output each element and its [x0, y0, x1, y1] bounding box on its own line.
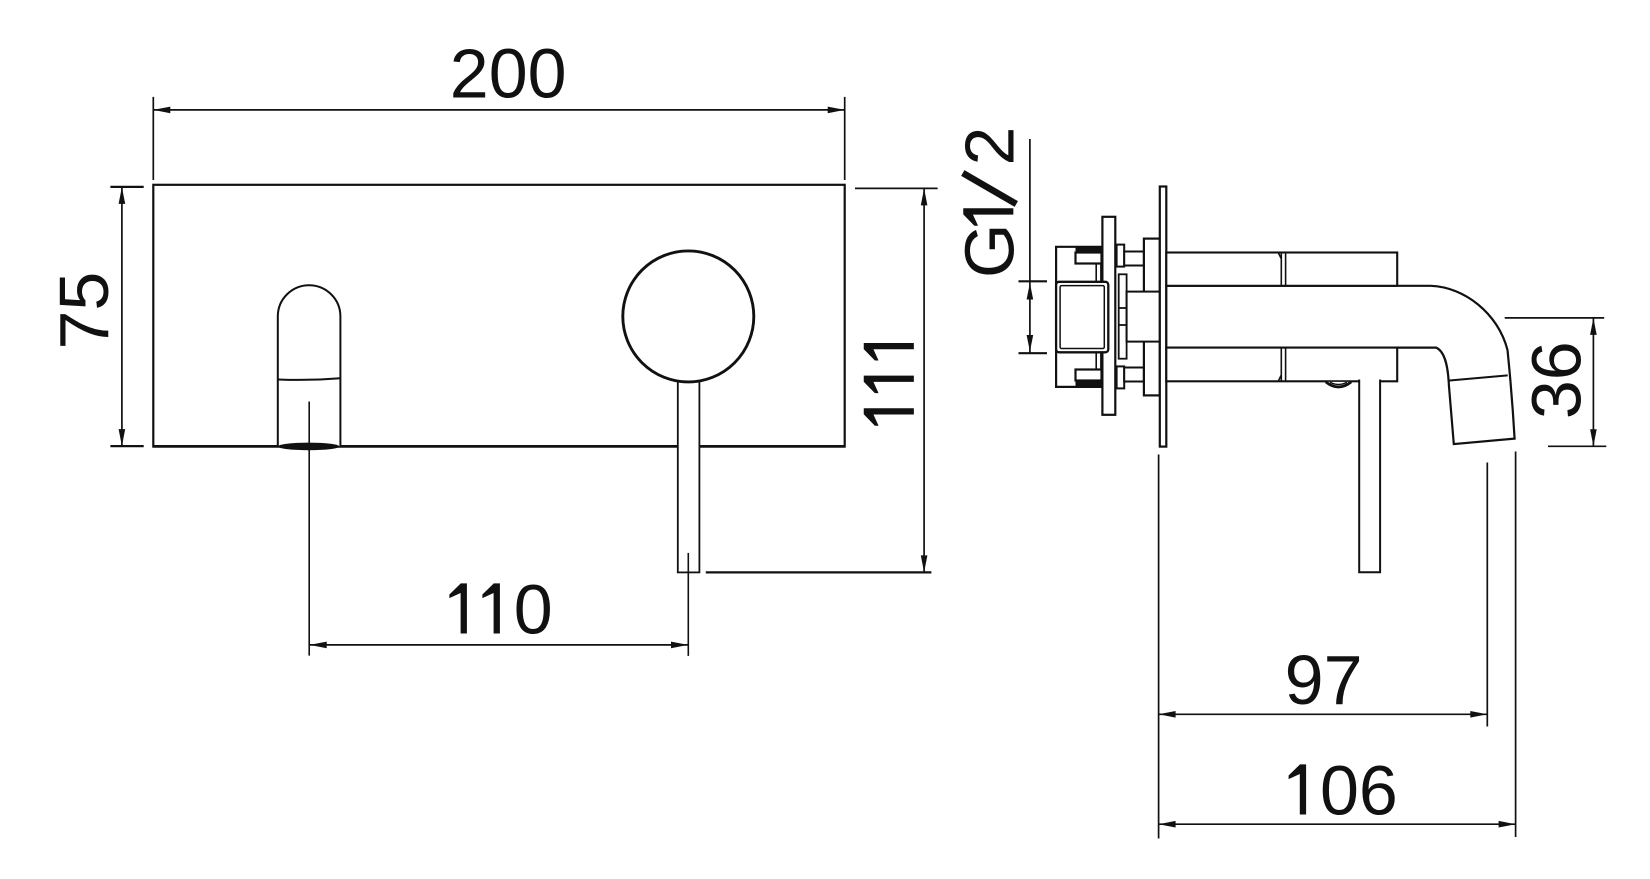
- svg-text:75: 75: [45, 272, 123, 350]
- dimension 106 line with arrows: [1159, 821, 1516, 828]
- dimension 111 top extension: [855, 187, 938, 189]
- svg-text:97: 97: [1285, 641, 1363, 719]
- extension line spout outer edge: [1515, 452, 1517, 838]
- spout outlet ellipse (dark): [278, 443, 340, 451]
- spout centerline / extension line for dim 110: [308, 402, 310, 656]
- dimension 200 extension line right: [844, 97, 846, 180]
- spout aerator joint line: [278, 378, 340, 380]
- extension line below wall plate: [1158, 455, 1160, 839]
- dimension 200 line with arrows: [153, 107, 844, 114]
- extension line spout outlet center: [1486, 463, 1488, 727]
- dimension text 106: [1289, 751, 1398, 829]
- cartridge spindle: [1119, 274, 1127, 358]
- dimension 75 bottom tick: [110, 445, 143, 447]
- aerator joint line (side view): [1448, 375, 1507, 380]
- flange A (back escutcheon bar): [1102, 217, 1115, 415]
- svg-text:36: 36: [1518, 341, 1596, 419]
- dimension 75 line with arrows: [119, 187, 126, 446]
- svg-text:0: 0: [514, 570, 553, 648]
- svg-text:06: 06: [1320, 751, 1398, 829]
- G1/2 dimension leader line: [1029, 139, 1031, 353]
- dimension 110 line with arrows: [310, 642, 688, 649]
- mounting bracket outline (behind wall): [1056, 247, 1101, 387]
- dimension 97 line with arrows: [1159, 711, 1488, 718]
- G1/2 dimension arrows: [1027, 283, 1034, 352]
- handle lever (side view): [1359, 380, 1380, 573]
- svg-text:G: G: [950, 224, 1028, 278]
- valve core through wall: [1127, 292, 1160, 342]
- dimension 36 line with arrows: [1590, 318, 1597, 446]
- flange B (escutcheon backing plate): [1144, 239, 1160, 396]
- G1/2 label (rotated): [950, 127, 1028, 278]
- body lower strip: [1166, 348, 1397, 382]
- seam lower strip: [1278, 348, 1285, 382]
- spout tube with bend (side view): [1166, 286, 1514, 444]
- G1/2 dimension ticks: [1019, 280, 1048, 282]
- wall plate (front view rectangle): [153, 185, 844, 447]
- bottom mounting screw: [1076, 352, 1102, 387]
- bottom tab: [1117, 366, 1125, 388]
- dimension 36 top extension: [1505, 317, 1605, 319]
- top mounting screw: [1076, 246, 1102, 282]
- top connector pipe: [1124, 252, 1144, 266]
- dimension 200 extension line left: [152, 97, 154, 180]
- lever centerline tick / extension for dim 110: [687, 553, 689, 656]
- bottom connector pipe: [1124, 368, 1144, 382]
- wall plate bottom edge (thicker): [153, 445, 846, 448]
- dimension text 110: [449, 570, 552, 648]
- dimension 111 bottom extension: [706, 571, 932, 573]
- seam upper strip: [1278, 253, 1285, 286]
- wall plate (side view): [1160, 187, 1167, 447]
- dimension 75 top tick: [110, 186, 143, 188]
- handle lever (front view bar): [678, 377, 700, 572]
- spout (front view capsule): [278, 285, 341, 446]
- top tab: [1117, 245, 1125, 267]
- svg-text:200: 200: [450, 35, 567, 113]
- dimension text 111 (rotated): [864, 343, 914, 426]
- G1/2 square nut: [1056, 282, 1108, 353]
- body upper strip: [1166, 253, 1397, 286]
- pivot dome: [1326, 382, 1351, 387]
- dimension 111 line with arrows: [921, 188, 928, 572]
- svg-text:2: 2: [950, 127, 1028, 166]
- dimension 36 bottom extension: [1548, 445, 1606, 447]
- handle knob circle (front view): [623, 251, 754, 382]
